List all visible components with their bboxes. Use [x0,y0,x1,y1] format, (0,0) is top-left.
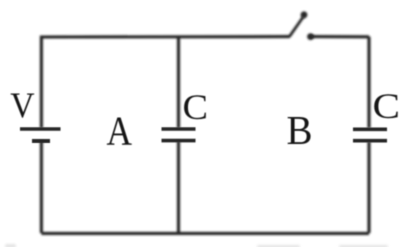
wire left vertical lower [40,141,43,233]
wire right vertical lower [367,142,370,234]
svg-text:B: B [287,107,313,153]
wire right vertical upper [367,37,370,128]
wire left vertical upper [40,36,43,129]
wire top left segment [41,35,290,39]
battery V short plate [32,139,50,143]
svg-text:C: C [183,87,209,127]
switch lever [290,17,304,37]
capacitor C1 top plate [162,127,196,131]
switch fixed contact dot [307,33,314,40]
wire bottom [41,232,369,235]
svg-text:A: A [107,108,133,154]
capacitor C2 top plate [353,128,387,132]
battery V long plate [20,127,61,131]
faint cutoff text artifacts at bottom edge [5,244,388,247]
svg-text:V: V [10,85,34,125]
svg-text:C: C [373,86,401,126]
wire top right segment [311,35,370,38]
capacitor C1 bottom plate [162,139,196,143]
wire middle vertical lower [177,141,180,233]
switch moving contact dot [301,11,308,18]
wire middle vertical upper [177,37,180,128]
capacitor C2 bottom plate [353,139,387,143]
